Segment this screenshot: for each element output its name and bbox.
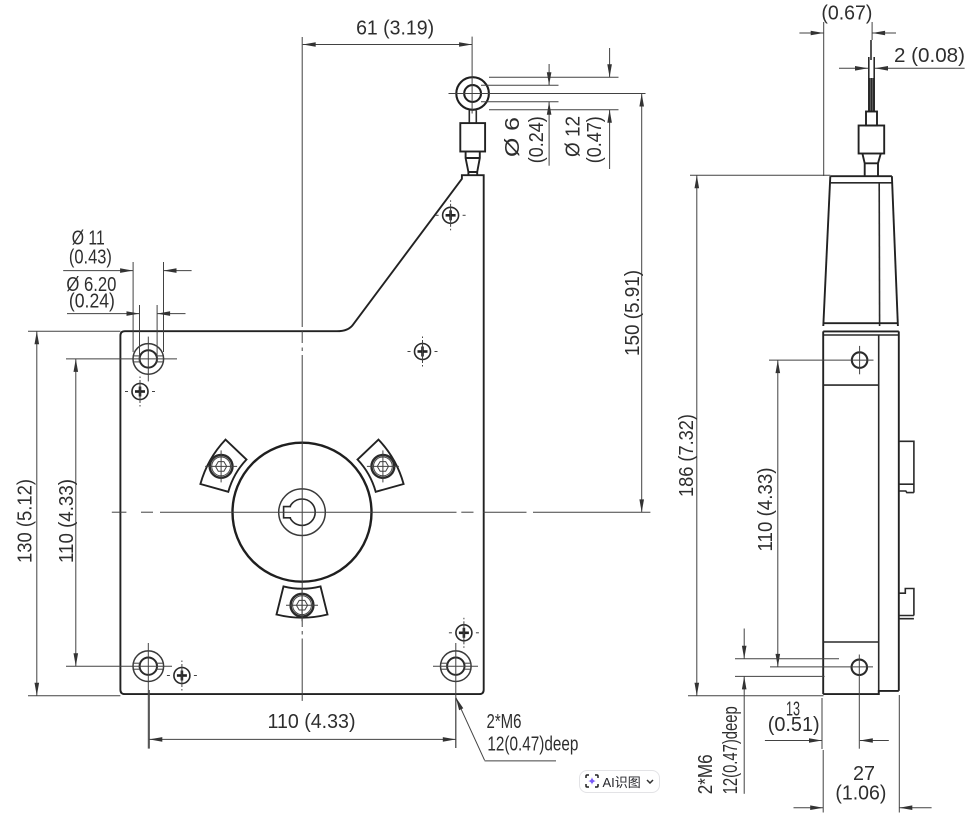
eyelet ring <box>456 77 489 110</box>
clamp tab upper-right <box>358 440 404 492</box>
svg-text:(0.51): (0.51) <box>768 714 820 736</box>
eyelet neck <box>466 152 480 176</box>
dimension (0.67) top <box>823 22 825 176</box>
svg-text:61 (3.19): 61 (3.19) <box>356 18 434 40</box>
clamp tab bottom <box>277 586 328 617</box>
side clip lower <box>899 589 914 619</box>
motor outer circle <box>233 443 372 582</box>
small screw on gusset <box>443 207 459 223</box>
vertical center line of plate <box>301 37 303 327</box>
side view main body <box>822 331 824 694</box>
dimension 13 (0.51) <box>821 698 823 749</box>
clamp screw upper-left <box>210 455 233 478</box>
svg-text:2 (0.08): 2 (0.08) <box>894 45 965 67</box>
eyelet extension lines <box>489 76 619 78</box>
side connector large block <box>859 126 885 154</box>
side 2xM6 label with extension lines <box>735 658 839 660</box>
svg-text:110 (4.33): 110 (4.33) <box>268 711 356 733</box>
dimension 27 (1.06) <box>822 750 824 813</box>
svg-text:(0.24): (0.24) <box>526 116 548 163</box>
svg-text:150 (5.91): 150 (5.91) <box>622 270 644 356</box>
side top screw <box>852 352 868 368</box>
dimension 110 (4.33) left <box>66 358 177 360</box>
side cable wires <box>870 40 872 60</box>
clamp screw bottom <box>291 594 314 617</box>
svg-text:(0.24): (0.24) <box>69 291 115 313</box>
dimension 61 (3.19) <box>303 44 472 46</box>
shaft circle with keyway <box>289 499 315 525</box>
side bottom hole <box>852 660 868 676</box>
side clip upper <box>899 441 914 492</box>
dimension 130 (5.12) left <box>28 330 120 332</box>
dimension 110 (4.33) bottom <box>148 690 150 749</box>
small screw near bottom-left hole <box>174 668 190 684</box>
svg-text:12(0.47)deep: 12(0.47)deep <box>720 706 742 794</box>
small screw above bottom-right hole <box>456 625 472 641</box>
dimension dia6.20 top-left <box>139 305 141 362</box>
counterbore hole bottom-right <box>441 651 472 682</box>
eyelet stem <box>468 111 470 124</box>
dimension 186 (7.32) <box>690 174 830 176</box>
eyelet block <box>460 123 485 151</box>
dimension 110 (4.33) side <box>769 359 874 361</box>
side connector small block <box>866 112 877 126</box>
small screw near top-left hole <box>132 384 148 400</box>
side view bottom edge with step <box>823 691 899 694</box>
dimension dia12 <box>609 48 611 77</box>
dimension dia11 top-left <box>132 262 134 352</box>
svg-text:12(0.47)deep: 12(0.47)deep <box>487 734 578 756</box>
svg-text:(0.67): (0.67) <box>821 3 872 25</box>
counterbore hole bottom-left <box>133 651 164 682</box>
eyelet horizontal center line <box>449 93 646 95</box>
svg-text:110 (4.33): 110 (4.33) <box>56 479 78 563</box>
svg-text:2*M6: 2*M6 <box>487 711 522 733</box>
svg-text:(1.06): (1.06) <box>835 783 886 805</box>
side connector neck <box>862 154 880 177</box>
leader 2xM6 bottom-right <box>456 697 485 760</box>
clamp tab upper-left <box>200 440 246 492</box>
svg-text:186 (7.32): 186 (7.32) <box>676 414 698 497</box>
clamp screw upper-right <box>372 455 395 478</box>
dimension 2 (0.08) <box>839 67 868 69</box>
shaft boss circle <box>279 489 326 536</box>
svg-text:130 (5.12): 130 (5.12) <box>15 479 37 563</box>
svg-text:Ø 6: Ø 6 <box>502 117 524 157</box>
AI recognize button overlay <box>579 770 660 793</box>
svg-text:(0.43): (0.43) <box>69 247 112 269</box>
svg-text:2*M6: 2*M6 <box>695 754 717 794</box>
eyelet vertical center line <box>471 37 473 114</box>
dimension dia6 <box>548 64 550 85</box>
side view tapered top section <box>830 175 892 177</box>
svg-text:110 (4.33): 110 (4.33) <box>755 468 777 552</box>
side view flange band <box>823 322 898 324</box>
front view body plate with gusset <box>120 175 483 694</box>
counterbore hole top-left <box>133 344 164 375</box>
small screw top-right of plate <box>415 344 431 360</box>
svg-text:(0.47): (0.47) <box>584 116 606 163</box>
svg-text:Ø 12: Ø 12 <box>563 116 585 157</box>
dimension 150 (5.91) <box>641 94 643 513</box>
horizontal center line through motor <box>112 511 127 513</box>
